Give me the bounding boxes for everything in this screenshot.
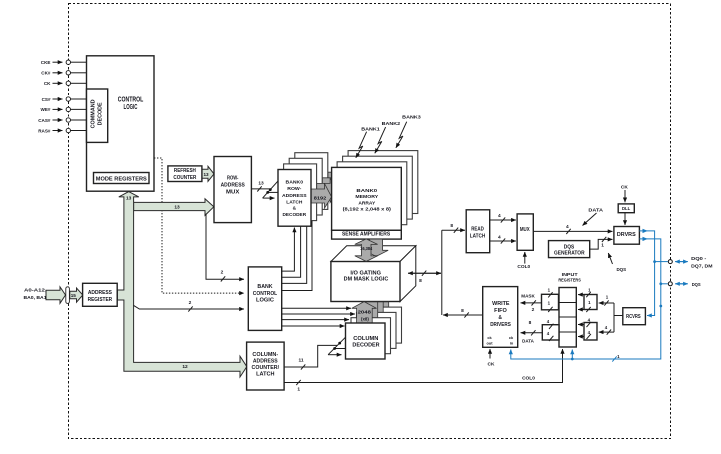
label DATA with pointer arrow bbox=[583, 207, 604, 225]
svg-text:BANK2: BANK2 bbox=[382, 121, 401, 127]
svg-text:DQ0 -: DQ0 - bbox=[691, 256, 707, 261]
box: bank3 memory array bbox=[348, 151, 418, 214]
gray bus arrow 8192 bank2 bbox=[322, 172, 343, 197]
svg-text:DQS: DQS bbox=[692, 282, 701, 287]
svg-text:&: & bbox=[293, 206, 297, 212]
svg-text:8: 8 bbox=[529, 320, 532, 326]
green bus: arrow into address register, label 15 bbox=[70, 288, 83, 302]
wire: COL0 line from counter to input registers, label 1 bbox=[284, 349, 562, 392]
box: ADDRESS REGISTER bbox=[83, 283, 118, 306]
column decoder cluster: 2048 arrows + stacked boxes bbox=[346, 302, 402, 359]
wire: green bus arrow down to bank control logic, label 2 bbox=[206, 214, 244, 282]
box: rcvr mask register (right upper) bbox=[578, 288, 597, 313]
box: DQS GENERATOR bbox=[549, 241, 590, 258]
svg-text:ARRAY: ARRAY bbox=[358, 200, 376, 206]
box: COLUMN-ADDRESS COUNTER/LATCH bbox=[247, 342, 285, 390]
svg-text:BA0, BA1: BA0, BA1 bbox=[24, 295, 47, 300]
svg-text:8: 8 bbox=[450, 223, 453, 229]
svg-text:FIFO: FIFO bbox=[494, 308, 507, 314]
pad: DQS bbox=[668, 282, 700, 287]
svg-text:13: 13 bbox=[203, 172, 209, 177]
wire CAS# input bbox=[53, 118, 89, 122]
box: bank2 column decoder bbox=[357, 312, 397, 348]
gray bus arrow 8192 bank3 bbox=[328, 167, 349, 192]
svg-text:2: 2 bbox=[532, 307, 535, 313]
svg-text:ADDRESS: ADDRESS bbox=[88, 290, 113, 296]
wire: DQS generator to DRVRS, label 1 bbox=[590, 237, 613, 249]
svg-text:4: 4 bbox=[498, 213, 501, 219]
wire CK input bbox=[53, 81, 87, 85]
wire CS# input bbox=[53, 97, 89, 101]
wires: read latch to mux (2), labels 4 bbox=[490, 213, 516, 243]
svg-text:COLUMN: COLUMN bbox=[353, 336, 379, 342]
svg-text:11: 11 bbox=[298, 358, 303, 364]
svg-text:LATCH: LATCH bbox=[286, 199, 303, 205]
svg-text:LOGIC: LOGIC bbox=[256, 298, 274, 304]
wire: COL0 stub to MUX bbox=[517, 252, 530, 270]
svg-text:COUNTER/: COUNTER/ bbox=[252, 365, 280, 371]
box: BANK0 MEMORY ARRAY bbox=[332, 167, 402, 230]
green bus network: address register to mode registers / row mux / column counter bbox=[134, 199, 214, 216]
wire: rcvr bus to mask register, label 1 bbox=[599, 295, 614, 306]
svg-text:ADDRESS: ADDRESS bbox=[221, 183, 246, 189]
box: DLL bbox=[618, 204, 634, 213]
svg-text:MODE REGISTERS: MODE REGISTERS bbox=[96, 176, 147, 182]
svg-text:DM MASK LOGIC: DM MASK LOGIC bbox=[344, 276, 389, 282]
svg-text:DRVRS: DRVRS bbox=[617, 232, 637, 238]
svg-text:4: 4 bbox=[566, 224, 569, 230]
svg-text:1: 1 bbox=[601, 242, 604, 248]
box: bank3 row-address latch bbox=[295, 153, 328, 210]
svg-text:DECODE: DECODE bbox=[98, 102, 104, 125]
wire RAS# input bbox=[53, 128, 89, 132]
svg-text:CK#: CK# bbox=[41, 71, 51, 76]
svg-text:DRIVERS: DRIVERS bbox=[490, 322, 511, 328]
svg-text:GENERATOR: GENERATOR bbox=[554, 250, 585, 256]
svg-text:16,384: 16,384 bbox=[360, 246, 373, 251]
wires: bank control to column decoders (4) bbox=[282, 307, 351, 309]
svg-text:BANK1: BANK1 bbox=[361, 126, 380, 132]
green bus: vertical shaft with mode-register arrow and 12-bus to column counter bbox=[117, 192, 246, 377]
svg-text:DQS: DQS bbox=[616, 267, 626, 273]
svg-text:BANK3: BANK3 bbox=[402, 115, 421, 121]
box: CONTROL LOGIC bbox=[87, 56, 155, 191]
box: BANK CONTROL LOGIC bbox=[248, 267, 281, 331]
svg-text:8: 8 bbox=[461, 308, 464, 314]
svg-text:COL0: COL0 bbox=[517, 264, 530, 270]
svg-text:MUX: MUX bbox=[226, 190, 240, 196]
label CK (top) with arrow to DLL bbox=[621, 185, 628, 203]
wire: DLL to DRVRS bbox=[624, 213, 626, 225]
box: DRVRS bbox=[614, 227, 640, 245]
box: bank1 row-address latch bbox=[284, 164, 317, 221]
svg-text:8: 8 bbox=[419, 278, 422, 284]
svg-text:13: 13 bbox=[258, 181, 264, 187]
svg-text:15: 15 bbox=[71, 293, 77, 298]
svg-text:WRITE: WRITE bbox=[492, 301, 510, 307]
svg-text:COUNTER: COUNTER bbox=[173, 175, 196, 181]
svg-text:WE#: WE# bbox=[41, 107, 51, 112]
box: READ LATCH bbox=[466, 210, 490, 253]
box: COMMAND DECODE bbox=[87, 89, 108, 142]
box: data input register (left lower) with slashes bbox=[542, 319, 559, 341]
box: rcvr data register (right lower) bbox=[578, 318, 597, 341]
svg-text:BANK0: BANK0 bbox=[286, 179, 304, 185]
svg-text:4: 4 bbox=[498, 234, 501, 240]
svg-text:13: 13 bbox=[174, 205, 180, 211]
svg-text:CONTROL: CONTROL bbox=[253, 291, 277, 297]
box: bank3 column decoder bbox=[362, 307, 402, 343]
wire: data register to write fifo, 8 / DATA bbox=[521, 320, 543, 345]
wire: column counter to column decoder fan, label 11 bbox=[284, 337, 345, 369]
svg-text:COLUMN-: COLUMN- bbox=[252, 352, 278, 358]
gray bus tab bank2 bbox=[368, 302, 384, 314]
svg-text:DECODER: DECODER bbox=[352, 343, 380, 349]
svg-text:CAS#: CAS# bbox=[38, 118, 51, 123]
box: MUX bbox=[517, 214, 533, 250]
box: ROW-ADDRESS MUX bbox=[214, 157, 251, 223]
svg-text:REFRESH: REFRESH bbox=[174, 168, 196, 174]
svg-text:out: out bbox=[486, 340, 493, 345]
svg-text:MEMORY: MEMORY bbox=[355, 194, 379, 200]
address input buffer capsule bbox=[66, 287, 70, 304]
svg-text:ROW-: ROW- bbox=[287, 186, 302, 192]
svg-text:CKE: CKE bbox=[41, 60, 51, 65]
box: SENSE AMPLIFIERS bbox=[332, 230, 402, 239]
svg-text:1: 1 bbox=[297, 386, 300, 392]
label BANK1 with lightning arrow bbox=[356, 126, 380, 158]
box: COLUMN DECODER bbox=[346, 323, 386, 359]
box: bank2 row-address latch bbox=[289, 158, 322, 215]
box: MODE REGISTERS bbox=[94, 173, 150, 184]
svg-text:&: & bbox=[498, 315, 502, 321]
svg-text:MASK: MASK bbox=[521, 293, 535, 299]
wire: vertical data bus bbox=[441, 230, 443, 315]
memory bank cluster: latches, arrays, 8192 arrows (banks 3..0) bbox=[278, 151, 418, 240]
box: bank2 memory array bbox=[343, 156, 413, 219]
box: REFRESH COUNTER bbox=[168, 166, 202, 182]
gray bus arrow 16,384 front (double headed) bbox=[355, 239, 378, 262]
svg-text:RCVRS: RCVRS bbox=[626, 314, 641, 320]
svg-text:BANK: BANK bbox=[257, 284, 273, 290]
pad: DQ0-DQ7, DM bbox=[668, 256, 712, 268]
blue wire: DRVRS DQS output to pad and input registers clock bbox=[511, 237, 668, 362]
box: bank1 memory array bbox=[337, 162, 407, 225]
wire: row mux to latch fan, label 13 bbox=[251, 180, 278, 198]
wire: rcvr bus to data register, label 4 bbox=[599, 325, 614, 335]
wires: bank control to row-address latches (4) bbox=[282, 228, 295, 272]
svg-text:CS#: CS# bbox=[42, 97, 51, 102]
svg-text:REGISTER: REGISTER bbox=[88, 297, 113, 303]
svg-text:LATCH: LATCH bbox=[256, 372, 275, 378]
svg-text:(8,192 x 2,048 x 8): (8,192 x 2,048 x 8) bbox=[343, 206, 392, 211]
box: input registers column (4 cells) bbox=[559, 288, 576, 348]
svg-text:DECODER: DECODER bbox=[282, 212, 306, 218]
svg-text:COMMAND: COMMAND bbox=[91, 99, 97, 128]
svg-text:CK: CK bbox=[44, 81, 51, 86]
svg-text:12: 12 bbox=[182, 364, 188, 370]
svg-text:SENSE AMPLIFIERS: SENSE AMPLIFIERS bbox=[342, 231, 391, 237]
green bus: refresh counter to row mux, label 13 bbox=[202, 166, 214, 181]
svg-text:CK: CK bbox=[621, 185, 628, 191]
svg-text:A0-A12,: A0-A12, bbox=[24, 288, 47, 293]
svg-text:CK: CK bbox=[488, 361, 495, 367]
svg-text:RAS#: RAS# bbox=[38, 128, 51, 133]
wire CK# input bbox=[53, 71, 87, 75]
wire CKE input bbox=[53, 60, 87, 64]
wire: to READ LATCH, label 8 bbox=[442, 223, 465, 233]
label CK (bottom) with arrow into write fifo bbox=[488, 349, 495, 367]
svg-text:2: 2 bbox=[189, 300, 192, 306]
svg-text:MUX: MUX bbox=[520, 227, 530, 233]
gray bus arrow 8192 bank1 bbox=[317, 178, 338, 203]
svg-text:DQ7, DM: DQ7, DM bbox=[691, 263, 713, 268]
svg-text:ADDRESS: ADDRESS bbox=[253, 359, 278, 365]
svg-text:READ: READ bbox=[471, 226, 484, 232]
svg-text:COL0: COL0 bbox=[522, 376, 535, 382]
box: I/O GATING DM MASK LOGIC (3D) bbox=[331, 246, 416, 302]
green bus: address input arrow A0-A12 bbox=[46, 287, 66, 303]
box: RCVRS bbox=[623, 308, 646, 325]
gray bus arrow 16384 back bbox=[364, 239, 388, 256]
wire: mask register to write fifo, MASK / 2 bbox=[521, 293, 542, 313]
svg-text:DLL: DLL bbox=[622, 206, 630, 212]
gray bus tab bank1 bbox=[362, 302, 378, 319]
label DQS with pointer arrow bbox=[608, 253, 627, 273]
svg-text:LOGIC: LOGIC bbox=[124, 102, 138, 111]
svg-text:DATA: DATA bbox=[588, 207, 603, 213]
blue wire: DRVRS DQ output to pad and RCVRS bbox=[639, 229, 667, 316]
box: bank1 column decoder bbox=[351, 318, 391, 354]
wire WE# input bbox=[53, 107, 89, 111]
svg-text:2048: 2048 bbox=[358, 310, 372, 315]
svg-text:DATA: DATA bbox=[522, 339, 534, 345]
box: BANK0 ROW-ADDRESS LATCH & DECODER bbox=[278, 170, 311, 227]
label BANK3 with lightning arrow bbox=[396, 115, 421, 148]
svg-text:2: 2 bbox=[221, 270, 224, 276]
dotted wire: control logic to bank control logic bbox=[154, 158, 244, 293]
gray bus tab bank3 bbox=[373, 302, 389, 308]
label BANK2 with lightning arrow bbox=[375, 121, 401, 153]
svg-text:REGISTERS: REGISTERS bbox=[558, 277, 581, 282]
svg-text:8192: 8192 bbox=[314, 195, 327, 200]
gray bus arrow 8192 bank0, label 8192 bbox=[311, 184, 332, 209]
svg-text:LATCH: LATCH bbox=[470, 234, 486, 240]
wire: rcvrs output bus (vertical) bbox=[613, 303, 615, 332]
wire: write fifo to vertical bus, label 8 bbox=[443, 308, 483, 318]
box: mask input register (left upper) with slashes bbox=[542, 287, 559, 312]
svg-text:(x8): (x8) bbox=[361, 317, 369, 322]
wire: green shaft to bank control logic, label 2 bbox=[133, 300, 244, 311]
svg-text:ADDRESS: ADDRESS bbox=[282, 193, 307, 199]
svg-text:13: 13 bbox=[126, 196, 132, 202]
wire: I/O gating to read/write vertical bus, label 8 (bidirectional) bbox=[408, 271, 441, 285]
wire: mux to DRVRS (DATA path), label 4 bbox=[533, 224, 612, 234]
svg-text:BANK0: BANK0 bbox=[356, 188, 377, 194]
gray bus arrow 2048 (x8) bank0 bbox=[352, 302, 377, 323]
svg-text:ROW-: ROW- bbox=[227, 175, 239, 181]
box: WRITE FIFO & DRIVERS bbox=[483, 287, 518, 348]
